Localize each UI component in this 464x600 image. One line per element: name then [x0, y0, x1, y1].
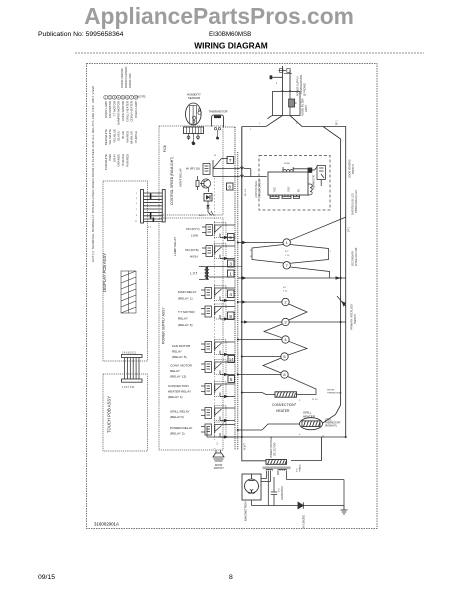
svg-text:6: 6 — [299, 434, 301, 436]
svg-text:DISPLAY PCB ASSY: DISPLAY PCB ASSY — [102, 253, 107, 292]
svg-text:NOISE FILTER: NOISE FILTER — [301, 98, 305, 116]
magnetron ground lead — [251, 500, 253, 506]
pcb pin 5 box — [228, 234, 235, 241]
svg-text:3 12: 3 12 — [283, 291, 288, 293]
svg-text:MAGNETRON: MAGNETRON — [244, 502, 248, 522]
svg-text:(RELAY 4): (RELAY 4) — [168, 395, 183, 399]
legend circled item 1 — [104, 95, 108, 99]
relay conv motor coil — [201, 360, 235, 377]
svg-text:2: 2 — [250, 129, 252, 131]
svg-text:REC: REC — [274, 187, 277, 192]
svg-text:2P 1: 2P 1 — [337, 120, 339, 125]
svg-text:W: W — [250, 256, 253, 258]
interlock return bus — [322, 127, 341, 424]
transformer laminated core — [263, 467, 291, 470]
svg-text:HOT(=) TERMINAL NORMALLY OPEN/: HOT(=) TERMINAL NORMALLY OPEN/CLOSED WHE… — [91, 86, 95, 262]
zigzag wire B-C — [264, 324, 282, 338]
svg-text:CONTROL SPEED (FAN/LIGHT): CONTROL SPEED (FAN/LIGHT) — [170, 157, 174, 205]
pcb pin 7 box — [227, 157, 234, 164]
pcb pin 9 box — [228, 312, 235, 320]
svg-text:INTERLOCK SW: INTERLOCK SW — [355, 247, 358, 266]
hv transformer dashed box — [259, 156, 330, 211]
pcb pin labels inside box — [274, 186, 301, 192]
harness bus line 2 — [237, 152, 239, 450]
relay power coil — [201, 422, 235, 439]
low voltage transformer symbol — [199, 266, 235, 280]
cavity thermostat switch in dashed area — [317, 166, 326, 187]
primary interlock switch symbol — [337, 296, 346, 307]
svg-text:L.V.T: L.V.T — [190, 272, 198, 276]
svg-text:(RELAY 2): (RELAY 2) — [170, 432, 185, 436]
legend circled item 3 — [112, 95, 116, 99]
svg-text:(3-PRONG): (3-PRONG) — [304, 83, 307, 96]
relay grill coil — [201, 406, 235, 423]
svg-text:(RELAY 1): (RELAY 1) — [178, 297, 193, 301]
load feed wire D — [242, 356, 281, 358]
svg-text:316002901A: 316002901A — [94, 522, 119, 527]
transistor Q1 — [200, 179, 211, 192]
svg-text:ASSY: ASSY — [304, 105, 308, 112]
svg-text:(RELAY3): (RELAY3) — [170, 415, 184, 419]
svg-text:8: 8 — [229, 574, 233, 581]
svg-text:HEATER: HEATER — [303, 415, 316, 419]
wire lens between load 1 and load 7 — [252, 245, 329, 264]
hv transformer primary winding (hatched) — [266, 460, 287, 465]
load feed wire to oven lamp — [238, 242, 283, 244]
humidity sensor pins — [187, 134, 199, 143]
svg-text:ON (RY7): ON (RY7) — [186, 227, 200, 231]
svg-text:RELAY: RELAY — [178, 317, 188, 321]
svg-text:R Y: R Y — [285, 251, 289, 253]
neutral bus line from filter — [241, 127, 243, 438]
relay convection heater coil — [201, 382, 235, 399]
svg-text:GRILL RELAY: GRILL RELAY — [170, 410, 190, 414]
svg-text:11: 11 — [135, 221, 138, 223]
svg-text:TRANS: TRANS — [299, 464, 302, 472]
thermistor — [212, 115, 224, 140]
svg-text:THERMISTOR: THERMISTOR — [208, 110, 227, 114]
svg-text:B/L 1-8: B/L 1-8 — [245, 188, 247, 196]
wire tick labels — [245, 188, 247, 196]
svg-text:VENT RELAY: VENT RELAY — [179, 168, 183, 187]
pcb pin 3 box — [228, 260, 235, 267]
svg-text:SWITCH: SWITCH — [354, 314, 357, 324]
hv diode — [298, 502, 303, 508]
convection heater feed — [242, 392, 262, 394]
svg-text:SENSOR: SENSOR — [188, 96, 200, 100]
pcb pin 5b box — [228, 376, 235, 383]
svg-text:TOUCH POB ASSY: TOUCH POB ASSY — [107, 396, 112, 433]
magnetron tube — [245, 474, 259, 493]
load circle 1 oven lamp — [283, 239, 290, 246]
svg-text:AC/FC: AC/FC — [199, 214, 206, 217]
load circle 8 lamp — [281, 371, 288, 378]
zigzag wire D-E — [263, 358, 281, 373]
vent relay coil — [203, 164, 210, 175]
svg-text:5: 5 — [136, 203, 138, 205]
legend circled item 7 — [130, 95, 134, 99]
ladder pin number smudges — [135, 193, 152, 229]
svg-text:11 10: 11 10 — [312, 399, 318, 401]
convection heater element (hatched) — [275, 392, 297, 397]
humidity sensor pin blob — [192, 141, 196, 145]
ground symbol at hv rail — [341, 506, 348, 515]
svg-text:SWITCH: SWITCH — [214, 467, 224, 470]
svg-text:1 10: 1 10 — [285, 255, 290, 257]
legend circled item 4 — [117, 95, 121, 99]
svg-text:2P 1: 2P 1 — [348, 226, 351, 232]
wire filter to neutral bus — [242, 116, 283, 127]
hv bottom rail — [252, 505, 345, 507]
harness bus line 1 — [234, 127, 236, 450]
load feed wire A — [238, 301, 282, 303]
svg-text:SHORT: SHORT — [327, 390, 335, 392]
pcb pin 1 box — [228, 270, 235, 277]
svg-text:PCB: PCB — [163, 144, 167, 152]
connector CN1 hatched block on display pcb — [121, 271, 136, 313]
load circle 3 turntable motor — [282, 318, 289, 325]
diode D1 and leads — [206, 201, 213, 216]
load feed wire B — [242, 321, 282, 323]
svg-text:SELECTOR: SELECTOR — [274, 442, 277, 456]
svg-text:1 4: 1 4 — [148, 227, 152, 229]
svg-text:WIRING DIAGRAM: WIRING DIAGRAM — [194, 41, 268, 51]
svg-text:7: 7 — [229, 158, 232, 163]
L.V.T feed wires crossing bus — [235, 266, 242, 268]
zigzag wire C-D — [288, 341, 307, 355]
load circle 4 damper motor — [282, 336, 289, 343]
hvt right lead — [291, 437, 322, 461]
zigzag wire A-B — [289, 304, 307, 320]
svg-text:4: 4 — [229, 292, 232, 297]
hv top rail — [207, 436, 346, 438]
monitor resistor marks right of heater — [299, 434, 325, 438]
svg-text:CONV. MOTOR: CONV. MOTOR — [170, 364, 193, 368]
svg-text:EI30BM60MSB: EI30BM60MSB — [209, 31, 251, 38]
junction dots on live bus — [340, 277, 347, 438]
svg-text:MAIN RELAY: MAIN RELAY — [178, 290, 197, 294]
touch pcb assy box — [103, 374, 148, 451]
ribbon pin number smudges — [122, 351, 137, 389]
zener diode box Z1 — [204, 194, 212, 202]
title underline — [75, 52, 424, 54]
tiny annotation marks near vent circuit — [199, 155, 216, 217]
svg-text:PURPLE: PURPLE — [134, 131, 138, 143]
svg-text:SWITCH: SWITCH — [352, 164, 355, 174]
noise filter box — [273, 92, 301, 116]
svg-text:9: 9 — [229, 314, 232, 319]
humidity sensor base (ticked) — [184, 127, 204, 134]
ladder connector dark key marks — [150, 194, 152, 200]
svg-text:Y: Y — [330, 251, 332, 253]
wire terminal labels — [250, 123, 298, 131]
svg-text:PUR/RED: PUR/RED — [125, 154, 129, 167]
svg-text:FAN MOTOR: FAN MOTOR — [172, 344, 191, 348]
svg-text:5: 5 — [230, 377, 233, 382]
svg-text:HEATER: HEATER — [276, 409, 290, 413]
lvt pcb solid box — [268, 172, 308, 195]
control speed fan/light pcb box — [159, 126, 223, 215]
capacitor at pcb top right — [293, 167, 317, 173]
svg-text:NOTE:: NOTE: — [137, 95, 147, 99]
svg-text:8: 8 — [228, 185, 231, 190]
svg-text:(RADIANT): (RADIANT) — [325, 425, 337, 428]
svg-text:Z: Z — [211, 195, 213, 197]
svg-text:LOW: LOW — [191, 234, 198, 238]
svg-text:R Y: R Y — [283, 287, 287, 289]
connector ladder between display pcb and power supply pcb — [141, 190, 166, 224]
svg-text:1 3 5 7 9 11: 1 3 5 7 9 11 — [122, 386, 135, 389]
svg-text:GND: GND — [288, 186, 291, 192]
svg-text:1: 1 — [229, 272, 232, 277]
hvt left lead — [242, 437, 266, 461]
relay T.T motor coil — [201, 304, 235, 321]
svg-text:CONVECTION: CONVECTION — [168, 384, 189, 388]
svg-text:2: 2 — [299, 400, 301, 402]
svg-text:RELAY: RELAY — [172, 350, 182, 354]
svg-text:CAPACITOR: CAPACITOR — [281, 486, 284, 500]
harness dotted corner — [223, 126, 235, 128]
interlock line from load B — [289, 321, 346, 323]
svg-text:5V: 5V — [298, 189, 301, 192]
svg-text:1: 1 — [259, 123, 261, 125]
legend circled item 2 — [108, 95, 112, 99]
relay main coil — [201, 286, 235, 303]
svg-text:THERMOSTAT: THERMOSTAT — [325, 422, 341, 425]
svg-text:14: 14 — [229, 357, 234, 362]
svg-text:(RELAY 5): (RELAY 5) — [172, 355, 187, 359]
primary coil on top of pcb box — [283, 163, 293, 172]
svg-text:(RELAY 12): (RELAY 12) — [170, 375, 186, 379]
svg-text:M: M — [214, 155, 216, 157]
power supply cord — [270, 66, 292, 92]
door switch connector below power box — [213, 450, 224, 461]
relay RY8 coil — [202, 244, 235, 261]
hv capacitor — [271, 477, 277, 506]
svg-text:3: 3 — [229, 262, 232, 267]
junction dots on bus — [237, 168, 243, 439]
svg-text:HIGH: HIGH — [190, 255, 198, 259]
pcb pin 8 box — [227, 183, 234, 190]
svg-text:H.V.: H.V. — [279, 488, 281, 492]
svg-text:COOK OFF: COOK OFF — [128, 73, 132, 88]
svg-text:H.V.: H.V. — [297, 468, 299, 472]
svg-text:3: 3 — [136, 198, 138, 200]
display pcb assy box — [103, 181, 148, 361]
diagram outer frame — [87, 64, 378, 529]
relay fan motor coil — [201, 340, 235, 357]
thermostat marks above heater — [299, 390, 342, 403]
svg-text:POWER RELAY: POWER RELAY — [170, 426, 192, 430]
load circle 7 convection heater feed — [283, 262, 290, 269]
hv feed line from power relay — [206, 427, 208, 437]
hv loop top — [287, 479, 345, 481]
lens end tick labels — [250, 250, 332, 258]
svg-text:HI (RY10): HI (RY10) — [186, 167, 200, 171]
secondary winding — [278, 469, 287, 479]
grill heater element in lens — [300, 418, 323, 430]
secondary coils below pcb box — [270, 195, 300, 199]
svg-text:AppliancePartsPros.com: AppliancePartsPros.com — [84, 3, 354, 29]
svg-text:T.T MOTOR: T.T MOTOR — [178, 310, 195, 314]
svg-text:1: 1 — [136, 193, 138, 195]
magnetron box — [242, 474, 261, 500]
svg-text:9: 9 — [136, 215, 138, 217]
grill thermostat label — [325, 420, 341, 428]
grill heater feed — [238, 429, 262, 431]
svg-text:2: 2 — [217, 443, 219, 446]
vent relay contact switch — [213, 159, 235, 177]
arrowhead into interlock — [336, 276, 341, 280]
inner dashed rail — [214, 178, 216, 442]
svg-text:THERMOSTAT: THERMOSTAT — [327, 391, 342, 394]
svg-text:HEATER RELAY: HEATER RELAY — [168, 390, 191, 394]
legend circled item 8 — [134, 95, 138, 99]
svg-text:LAMP RELAY: LAMP RELAY — [173, 237, 177, 256]
filament leads to magnetron — [261, 478, 267, 480]
legend circled item 6 — [125, 95, 129, 99]
relay RY7 coil — [202, 223, 235, 240]
wire filter to live bus — [290, 116, 346, 438]
svg-text:09/15: 09/15 — [38, 574, 55, 581]
load circle 2 fan motor — [282, 298, 289, 305]
svg-text:ON (RY8): ON (RY8) — [185, 248, 199, 252]
svg-text:1: 1 — [276, 83, 278, 85]
filament winding — [266, 469, 273, 505]
svg-text:(RELAY 6): (RELAY 6) — [178, 323, 193, 327]
svg-text:THERMOSTAT: THERMOSTAT — [313, 174, 316, 190]
svg-text:FUSE: FUSE — [284, 163, 290, 165]
pcb pin 4 box — [228, 290, 235, 298]
power supply pcb assy box — [159, 218, 223, 450]
wire from load 7 to interlock line — [290, 267, 329, 278]
load feed wire E — [238, 374, 281, 376]
svg-text:7: 7 — [136, 209, 138, 211]
load circle 5 convection motor — [281, 353, 288, 360]
resistor network R1 — [196, 176, 199, 190]
label above load A — [283, 287, 288, 293]
svg-text:H.V.T: H.V.T — [243, 443, 247, 450]
interlock feed line — [238, 277, 346, 279]
svg-text:3: 3 — [296, 123, 298, 125]
coil component right of pcb box — [308, 184, 312, 195]
ribbon cable between display pcb and touch pcb — [122, 355, 143, 383]
svg-text:5: 5 — [229, 235, 232, 240]
svg-text:OVEN LAMP: OVEN LAMP — [134, 101, 138, 118]
svg-text:RELAY: RELAY — [170, 369, 180, 373]
pcb pin 14 box — [228, 356, 235, 363]
legend circled item 5 — [121, 95, 125, 99]
load feed wire C — [238, 339, 282, 341]
diagonal wire from load 1 to door sensing area — [290, 217, 346, 240]
svg-text:POWER SUPPLY ASSY: POWER SUPPLY ASSY — [162, 307, 166, 344]
noise filter internal component — [268, 90, 297, 119]
svg-text:2 4 6 8 10 12: 2 4 6 8 10 12 — [122, 351, 137, 354]
svg-text:CONVECTION7: CONVECTION7 — [272, 402, 297, 407]
humidity sensor — [186, 103, 202, 125]
svg-text:TWISTED(RED)-LED: TWISTED(RED)-LED — [355, 190, 358, 213]
L.V.T feed wires from control pcb — [235, 167, 267, 177]
svg-text:Publication No: 5995658364: Publication No: 5995658364 — [38, 31, 124, 38]
wire from load E to convection heater — [288, 377, 316, 395]
svg-text:H.V.DIODE: H.V.DIODE — [302, 515, 306, 528]
